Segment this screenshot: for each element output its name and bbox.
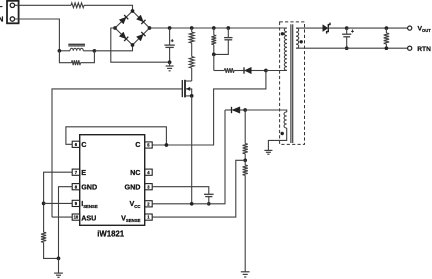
- bridge diode D3 (left-bottom): [119, 32, 126, 39]
- wire R3 to clamp node: [213, 45, 215, 55]
- terminal RTN: [408, 46, 412, 50]
- aux divider resistor R6 upper: [243, 144, 248, 154]
- wire choke right lead: [83, 50, 94, 52]
- wire emitter pin 7: [44, 172, 73, 232]
- node rail snubber cap tap: [226, 26, 230, 30]
- wire C2 to clamp node: [214, 40, 229, 55]
- svg-text:VCC: VCC: [129, 199, 140, 209]
- wire fuse to bridge top: [84, 5, 133, 11]
- node output cap bottom: [345, 46, 349, 50]
- phase dot auxiliary: [281, 132, 284, 135]
- transformer T1 shield box (dashed): [280, 22, 305, 144]
- svg-text:+: +: [171, 39, 174, 45]
- svg-text:2: 2: [147, 201, 150, 206]
- node primary ground: [57, 257, 61, 261]
- snubber resistor R3 top lead: [213, 28, 215, 35]
- bridge diode D4 (bottom-right): [136, 34, 143, 41]
- wire L to fuse: [15, 4, 71, 6]
- wire VSENSE pin 1: [152, 160, 245, 217]
- snubber capacitor C2: [224, 37, 232, 39]
- VCC capacitor C3: [204, 193, 214, 195]
- wire aux node to divider: [244, 110, 246, 144]
- wire GND pin 3 to VCC cap: [152, 187, 209, 195]
- wire output cap bottom lead: [346, 37, 348, 48]
- svg-text:3: 3: [147, 184, 150, 189]
- node bridge bottom: [131, 43, 135, 47]
- output Schottky diode D7: [323, 25, 328, 32]
- MOSFET Q1 channel bar: [184, 80, 186, 98]
- node bridge left: [113, 26, 117, 30]
- pin 9 box: [72, 200, 80, 206]
- pin 10 box: [72, 214, 80, 220]
- output capacitor C4 (electrolytic): [342, 33, 351, 35]
- load resistor R8: [384, 33, 389, 44]
- node primary bottom: [264, 69, 268, 73]
- snubber resistor R3: [211, 35, 216, 45]
- wire choke left lead: [59, 50, 70, 52]
- wire N to choke: [15, 19, 60, 51]
- wire primary node to IC collector pin: [152, 71, 266, 146]
- node choke left: [58, 49, 62, 53]
- fuse resistor F1: [71, 3, 84, 8]
- svg-text:+: +: [351, 29, 354, 35]
- wire primary bottom to transformer: [266, 70, 287, 72]
- svg-text:C: C: [135, 140, 140, 149]
- wire R7 to ground: [244, 175, 246, 271]
- node C3 on VCC row: [207, 202, 211, 206]
- MOSFET Q1 body arrow: [186, 89, 192, 96]
- transformer T1 secondary winding: [296, 28, 299, 48]
- wire between startup resistors: [191, 43, 193, 57]
- svg-text:ISENSE: ISENSE: [81, 199, 98, 209]
- svg-text:RTN: RTN: [417, 46, 431, 53]
- svg-text:iW1821: iW1821: [97, 230, 125, 239]
- svg-text:9: 9: [75, 201, 78, 206]
- node aux winding top: [243, 108, 247, 112]
- startup resistor R2 lower: [189, 57, 194, 69]
- wire bulk cap bottom lead: [169, 47, 171, 62]
- phase dot secondary: [300, 40, 303, 43]
- wire RC node down: [213, 54, 215, 70]
- input connector J1: [7, 1, 19, 24]
- svg-text:NC: NC: [130, 168, 140, 177]
- MOSFET Q1 gate bar: [181, 80, 183, 97]
- wire aux winding bottom to ground: [268, 128, 286, 150]
- svg-text:5: 5: [147, 143, 150, 148]
- node source-body junction: [190, 94, 194, 98]
- terminal VOUT: [408, 26, 412, 30]
- clamp diode D5: [245, 67, 252, 73]
- wire bridge negative to bulk ground node: [111, 28, 170, 62]
- wire VCC pin 2 row: [152, 110, 225, 204]
- wire R4 to clamp diode: [234, 70, 244, 72]
- wire C3 to VCC row: [208, 197, 210, 204]
- bulk capacitor C1 (electrolytic): [164, 44, 174, 46]
- node bridge right: [148, 26, 152, 30]
- svg-text:10: 10: [74, 215, 79, 220]
- wire startup resistors to MOSFET drain: [191, 68, 193, 81]
- svg-text:GND: GND: [81, 183, 97, 192]
- node emitter-Isense: [42, 202, 46, 206]
- svg-text:E: E: [81, 168, 86, 177]
- wire RTN line: [296, 47, 408, 49]
- snubber series resistor R4: [224, 68, 234, 73]
- aux divider resistor R7 lower: [244, 160, 246, 165]
- node load resistor top: [385, 26, 389, 30]
- wire R6 to midpoint: [244, 154, 246, 161]
- bridge diode D2 (top-right): [136, 15, 143, 22]
- wire Isense pin 9: [44, 202, 73, 204]
- svg-text:7: 7: [75, 170, 78, 175]
- node divider midpoint: [243, 158, 247, 162]
- ground aux divider: [241, 271, 250, 273]
- wire secondary top to output diode: [296, 27, 323, 29]
- pin 8 box: [72, 184, 80, 190]
- node bulk cap ground: [168, 60, 172, 64]
- wire collector loop pins 6 to 5: [66, 127, 166, 145]
- wire output cap top lead: [346, 28, 348, 34]
- node rail startup resistor tap: [190, 26, 194, 30]
- node snubber RC junction: [212, 53, 216, 57]
- pin 5 box: [145, 142, 153, 148]
- IC U1 iW1821 body: [80, 135, 145, 226]
- svg-text:8: 8: [75, 184, 78, 189]
- wire choke to bridge AC input: [94, 45, 132, 51]
- pin 1 box: [145, 214, 153, 220]
- wire load resistor leads: [385, 28, 387, 33]
- node choke right: [93, 49, 97, 53]
- wire bulk cap top lead: [169, 28, 171, 45]
- svg-text:C: C: [81, 140, 86, 149]
- svg-text:ASU: ASU: [81, 213, 96, 222]
- MOSFET Q1 source lead: [186, 95, 192, 97]
- wire GND pin 8: [59, 187, 73, 259]
- wire aux node to transformer: [245, 110, 287, 112]
- ground bulk cap: [169, 62, 171, 66]
- svg-text:1: 1: [147, 215, 150, 220]
- pin 3 box: [145, 184, 153, 190]
- ground primary: [58, 258, 60, 273]
- svg-text:GND: GND: [125, 183, 141, 192]
- transformer T1 primary winding: [284, 28, 287, 70]
- pin 6 box: [72, 141, 80, 147]
- wire to snubber series resistor: [214, 70, 225, 72]
- wire output top line: [347, 27, 408, 29]
- wire DC+ rail: [150, 27, 288, 29]
- wire R5 to ground node: [44, 242, 59, 258]
- node output cap top: [345, 26, 349, 30]
- startup resistor R1 upper: [191, 28, 193, 32]
- node source on VCC row: [190, 202, 194, 206]
- pin 2 box: [145, 201, 153, 207]
- node collector junction: [165, 143, 169, 147]
- wire D5 to primary bottom node: [251, 70, 266, 72]
- pin 7 box: [72, 169, 80, 175]
- ground auxiliary winding: [264, 149, 272, 151]
- common-mode choke L1 winding: [70, 48, 83, 51]
- wire ASU pin 10: [52, 216, 72, 218]
- MOSFET Q1 drain lead: [186, 80, 192, 82]
- MOSFET Q1 gate wire: [52, 89, 182, 217]
- svg-text:N: N: [0, 14, 3, 23]
- svg-text:VOUT: VOUT: [418, 25, 432, 33]
- current sense resistor R5: [41, 232, 46, 242]
- transformer T1 core: [290, 24, 292, 143]
- wire parallel resistor right: [81, 51, 95, 63]
- wire D6 to aux node: [240, 109, 245, 111]
- node rail bulk cap tap: [168, 26, 172, 30]
- node load resistor bottom: [385, 46, 389, 50]
- svg-text:6: 6: [75, 142, 78, 147]
- node rail snubber resistor tap: [212, 26, 216, 30]
- bridge diode D1 (left-top): [119, 17, 126, 24]
- wire source to VCC row: [191, 96, 193, 204]
- snubber capacitor C2 top lead: [227, 28, 229, 38]
- svg-text:L: L: [0, 0, 3, 9]
- wire parallel resistor loop: [59, 51, 71, 63]
- node bridge top: [131, 9, 135, 13]
- aux rectifier diode D6: [232, 107, 240, 113]
- bridge rectifier frame: [115, 11, 150, 45]
- common-mode choke L1 core: [68, 43, 85, 45]
- resistor parallel to choke: [72, 60, 81, 65]
- wire D7 to output cap: [328, 27, 347, 29]
- svg-text:4: 4: [147, 170, 150, 175]
- svg-text:VSENSE: VSENSE: [121, 213, 140, 223]
- pin 4 box: [145, 169, 153, 175]
- phase dot primary: [281, 32, 284, 35]
- wire VCC riser to aux diode cathode: [225, 109, 232, 111]
- transformer T1 auxiliary winding: [284, 112, 287, 128]
